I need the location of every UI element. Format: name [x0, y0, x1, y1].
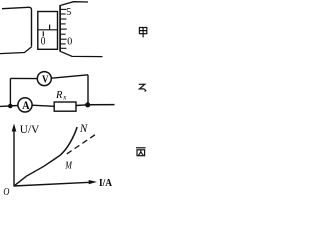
voltmeter U1 circle — [37, 72, 51, 86]
svg-text:0: 0 — [67, 36, 72, 47]
ammeter A1 circle — [18, 98, 32, 112]
label 丙 (drawn strokes) — [136, 148, 146, 156]
sleeve reference midline — [38, 29, 58, 31]
micrometer sleeve body — [38, 12, 58, 50]
micrometer frame bottom-left arm — [0, 47, 32, 54]
svg-text:R: R — [55, 90, 63, 101]
thimble edge — [59, 5, 61, 52]
dashed extension line — [67, 134, 97, 154]
main scale tick above line — [49, 25, 51, 30]
resistor Rx box — [54, 102, 76, 111]
wire bottom far-left segment — [0, 105, 18, 108]
svg-text:5: 5 — [66, 7, 71, 18]
steep curve M to N — [60, 127, 77, 155]
x axis — [14, 182, 91, 186]
svg-text:x: x — [62, 94, 67, 102]
thimble tick marks — [61, 9, 67, 48]
thimble top edge — [61, 2, 88, 6]
svg-text:I/A: I/A — [99, 177, 112, 189]
junction node right — [85, 102, 90, 107]
svg-text:O: O — [3, 187, 9, 198]
wire top left to voltmeter — [10, 77, 37, 79]
svg-text:V: V — [42, 74, 49, 86]
wire voltmeter to top right corner — [51, 75, 88, 78]
svg-text:M: M — [64, 160, 72, 172]
linear segment O to M — [15, 155, 60, 185]
micrometer frame top-left arm — [2, 7, 32, 46]
wire resistor to right junction — [76, 104, 88, 107]
wire ammeter to resistor — [32, 105, 54, 106]
wire right vertical — [87, 75, 89, 105]
label 乙 (drawn strokes) — [139, 84, 147, 91]
wire left vertical — [9, 78, 11, 106]
half-mm tick below line — [42, 31, 44, 36]
thimble bottom edge — [60, 51, 102, 56]
wire bottom right stub — [88, 104, 115, 106]
svg-text:0: 0 — [41, 36, 46, 48]
y axis — [13, 131, 15, 186]
x axis arrowhead — [89, 180, 97, 184]
svg-text:U/V: U/V — [20, 122, 40, 136]
y axis arrowhead — [12, 124, 17, 132]
label 甲 (drawn strokes) — [139, 28, 146, 38]
svg-text:A: A — [22, 100, 30, 112]
junction node left — [8, 104, 13, 109]
svg-text:N: N — [79, 121, 88, 135]
